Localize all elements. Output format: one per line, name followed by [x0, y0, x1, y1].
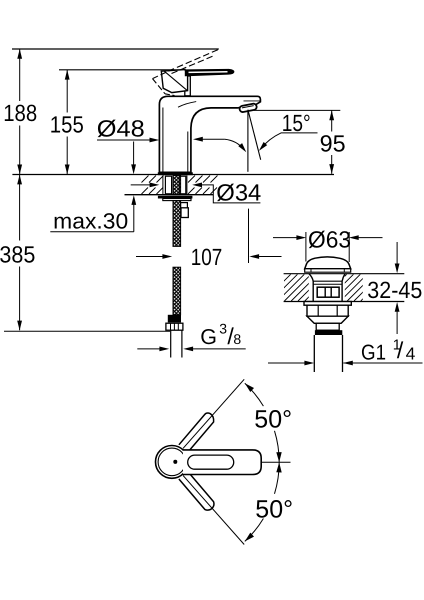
svg-text:Ø34: Ø34 — [216, 180, 261, 206]
svg-text:/: / — [397, 337, 404, 363]
lever top-view lower 50deg — [179, 471, 214, 510]
aerator — [239, 103, 257, 112]
svg-text:188: 188 — [3, 100, 37, 126]
svg-text:3: 3 — [219, 321, 227, 337]
construction line upper 50deg — [183, 379, 244, 448]
angle arc leader with arrows — [193, 137, 203, 142]
hose end block — [168, 315, 181, 323]
drain body neck — [309, 274, 345, 302]
handle knob facet line — [164, 71, 187, 90]
cartridge circles — [156, 446, 189, 479]
water line 15deg slant — [248, 110, 261, 160]
extension line 188 top — [12, 48, 219, 50]
svg-text:G1: G1 — [361, 341, 386, 365]
hose braid lower — [173, 267, 181, 315]
svg-text:Ø48: Ø48 — [97, 116, 145, 142]
dimension 155 — [66, 70, 68, 175]
svg-text:4: 4 — [406, 344, 416, 364]
phantom knob dashed — [153, 67, 177, 78]
lever handle slot — [188, 455, 234, 469]
extension line 155 top — [59, 69, 181, 71]
cartridge center mark — [173, 460, 177, 464]
mounting stud and nut — [181, 203, 188, 209]
svg-text:50°: 50° — [255, 496, 293, 524]
label max.30 underlined — [50, 231, 134, 233]
dimension 95 — [331, 110, 333, 173]
counter bottom line — [284, 301, 405, 303]
svg-text:155: 155 — [50, 111, 84, 137]
handle lever blade — [185, 69, 235, 76]
label G38 — [200, 321, 241, 350]
dimension 385 — [19, 175, 21, 331]
G38 pipe — [171, 330, 182, 357]
handle knob — [161, 70, 187, 93]
lever top-view handle right — [183, 450, 261, 475]
shank threaded rod — [173, 176, 181, 195]
counter hatching — [264, 274, 394, 301]
hose braid upper — [173, 201, 181, 247]
drain collar bar — [315, 330, 342, 335]
centerline horizontal — [233, 461, 291, 463]
phantom lever dashed (raised position) — [177, 49, 219, 67]
faucet base plate — [158, 172, 193, 175]
svg-text:15°: 15° — [282, 110, 311, 136]
dimension 188 — [19, 49, 21, 174]
extension line spout outlet — [254, 109, 340, 111]
faucet spout tip front edge — [244, 100, 260, 102]
drain tailpipe — [314, 335, 342, 372]
lever top-view upper 50deg — [179, 413, 214, 452]
svg-text:G: G — [200, 325, 217, 349]
faucet body highlight arc — [178, 102, 196, 108]
deck bottom line — [125, 194, 214, 196]
handle neck — [185, 76, 191, 96]
drain overflow windows — [317, 287, 339, 297]
angle arc lower — [245, 462, 279, 541]
water line vertical — [247, 111, 249, 172]
svg-text:385: 385 — [0, 242, 35, 268]
dimension G114 — [268, 362, 305, 364]
extension line 385 bottom — [4, 330, 170, 332]
drain dome cap — [305, 257, 351, 269]
drain cap rim — [305, 269, 351, 272]
svg-text:107: 107 — [191, 244, 223, 270]
dimension Ø63 — [273, 237, 297, 239]
faucet body outline — [159, 96, 260, 172]
construction line lower 50deg — [183, 475, 244, 544]
extension lines Ø63 — [305, 232, 307, 262]
drain locknut — [307, 305, 348, 316]
svg-text:32-45: 32-45 — [367, 277, 422, 303]
svg-text:8: 8 — [233, 331, 241, 347]
dimension G38 — [137, 348, 160, 350]
dimension 32-45 — [396, 242, 398, 264]
extension line 107 — [248, 209, 250, 263]
dimension Ø34 arrows and leader — [131, 184, 151, 186]
dimension max30 upper arrow — [133, 142, 135, 167]
drain washer — [304, 302, 351, 306]
label G114 — [361, 337, 416, 364]
drain step — [316, 323, 339, 330]
dimension 107 — [136, 256, 163, 258]
svg-text:95: 95 — [320, 131, 346, 157]
svg-text:50°: 50° — [254, 405, 292, 433]
deck top line — [12, 174, 334, 176]
shank hole edges — [162, 175, 164, 194]
faucet body inner right line — [187, 132, 189, 173]
deck hatching — [142, 176, 218, 195]
svg-text:Ø63: Ø63 — [308, 227, 351, 253]
dimension max30 lower arrow — [131, 195, 136, 205]
faucet body inner left line — [162, 108, 164, 173]
shank sleeves — [165, 176, 171, 194]
under-deck washer bars — [158, 196, 193, 199]
angle arc upper — [245, 383, 279, 462]
svg-text:max.30: max.30 — [53, 209, 128, 234]
counter top line — [284, 273, 405, 275]
hose end nut — [166, 323, 183, 330]
